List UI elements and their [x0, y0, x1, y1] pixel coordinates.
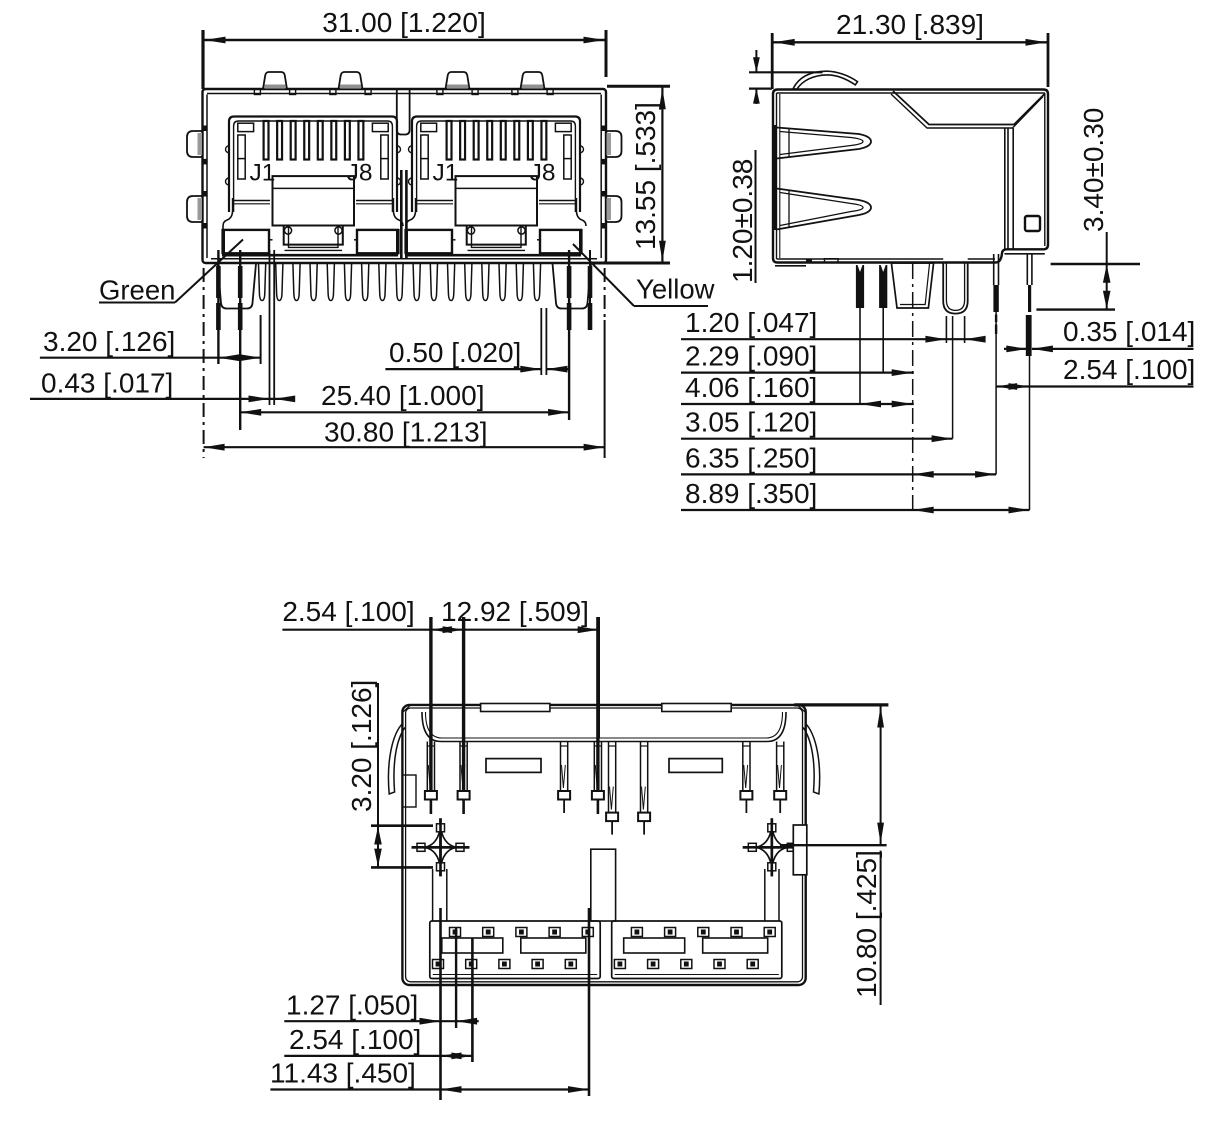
svg-text:12.92 [.509]: 12.92 [.509] — [441, 596, 589, 627]
svg-text:3.40±0.30: 3.40±0.30 — [1078, 108, 1109, 232]
svg-text:2.29 [.090]: 2.29 [.090] — [685, 341, 817, 372]
svg-text:1.20±0.38: 1.20±0.38 — [727, 159, 758, 283]
svg-text:10.80 [.425]: 10.80 [.425] — [851, 850, 882, 998]
svg-text:13.55 [.533]: 13.55 [.533] — [630, 102, 661, 250]
svg-text:1.27 [.050]: 1.27 [.050] — [286, 990, 418, 1021]
svg-text:J8: J8 — [347, 160, 373, 187]
svg-text:4.06 [.160]: 4.06 [.160] — [685, 372, 817, 403]
svg-text:3.05 [.120]: 3.05 [.120] — [685, 407, 817, 438]
svg-text:Green: Green — [99, 275, 175, 306]
svg-text:25.40 [1.000]: 25.40 [1.000] — [321, 380, 484, 411]
svg-text:0.35 [.014]: 0.35 [.014] — [1063, 316, 1195, 347]
svg-text:2.54 [.100]: 2.54 [.100] — [289, 1024, 421, 1055]
svg-text:8.89 [.350]: 8.89 [.350] — [685, 478, 817, 509]
svg-text:1.20 [.047]: 1.20 [.047] — [685, 307, 817, 338]
svg-text:0.43 [.017]: 0.43 [.017] — [41, 368, 173, 399]
svg-text:11.43 [.450]: 11.43 [.450] — [270, 1058, 416, 1089]
svg-text:3.20 [.126]: 3.20 [.126] — [346, 680, 377, 812]
svg-text:3.20 [.126]: 3.20 [.126] — [43, 326, 175, 357]
svg-text:30.80 [1.213]: 30.80 [1.213] — [324, 417, 487, 448]
svg-text:0.50 [.020]: 0.50 [.020] — [389, 337, 521, 368]
svg-text:Yellow: Yellow — [636, 274, 715, 305]
svg-text:J8: J8 — [530, 160, 556, 187]
svg-text:2.54 [.100]: 2.54 [.100] — [1063, 354, 1195, 385]
svg-text:2.54 [.100]: 2.54 [.100] — [282, 596, 414, 627]
svg-text:6.35 [.250]: 6.35 [.250] — [685, 442, 817, 473]
svg-text:21.30 [.839]: 21.30 [.839] — [836, 9, 984, 40]
svg-text:31.00 [1.220]: 31.00 [1.220] — [322, 7, 485, 38]
